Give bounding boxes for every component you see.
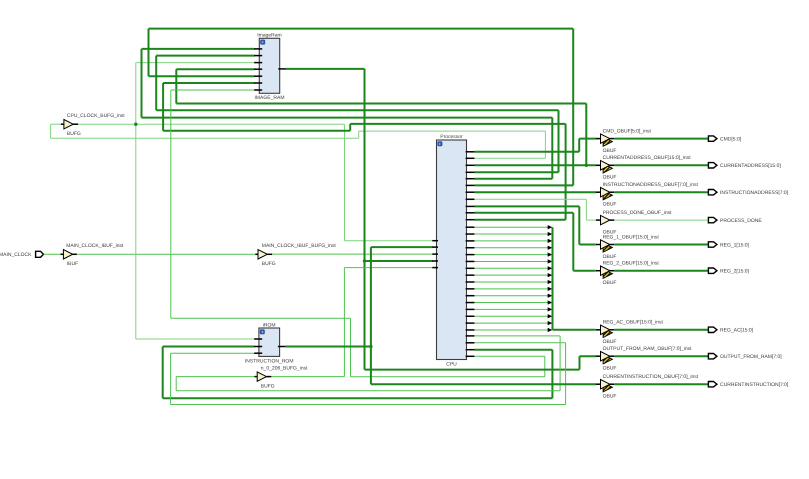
output port CMD[5:0] <box>708 136 717 141</box>
svg-text:PROCESS_DONE: PROCESS_DONE <box>720 218 762 224</box>
svg-text:REG_1[15:0]: REG_1[15:0] <box>720 242 750 248</box>
svg-text:MAIN_CLOCK: MAIN_CLOCK <box>0 252 32 258</box>
pins CPU outputs 1-31 <box>466 152 475 356</box>
buffer INSTRUCTIONADDRESS_OBUF[7:0]_inst (OBUF) <box>596 188 614 200</box>
buffer MAIN_CLOCK_IBUF_inst (IBUF) <box>61 250 77 259</box>
label MAIN_CLOCK_IBUF_inst <box>66 243 124 249</box>
label port CMD[5:0] <box>720 136 742 142</box>
wire net RAM mode: CPU pin31 y356.3 wrap to ImageRam pin7 <box>171 90 545 377</box>
pin ImageRam output <box>278 68 285 70</box>
svg-text:BUFG: BUFG <box>262 261 276 267</box>
pin iROM output <box>278 346 286 348</box>
svg-text:BUFG: BUFG <box>261 383 275 389</box>
label CPU instance <box>446 362 457 368</box>
wire net CPU_CLOCK from CPU pin2 wrap to CPU_CLOCK_BUFG input <box>51 124 546 158</box>
buffer OUTPUT_FROM_RAM_OBUF[7:0]_inst (OBUF) <box>596 352 614 364</box>
label Processor title <box>440 134 463 140</box>
buffer CURRENTADDRESS_OBUF[15:0]_inst (OBUF) <box>596 161 614 173</box>
label port CURRENTINSTRUCTION[7:0] <box>720 382 789 388</box>
wire net INSTRADDR wrap: CPU pin30 y349.7 down to iROM pin2 <box>163 347 553 399</box>
svg-text:OBUF: OBUF <box>603 202 617 208</box>
junction CPU_CLOCK at BUFG output branch <box>134 123 137 126</box>
svg-text:CPU: CPU <box>446 362 457 368</box>
label OBUF under REG_1_OBUF[15:0]_inst <box>603 254 617 260</box>
buffer REG_AC_OBUF[15:0]_inst (OBUF) <box>596 325 614 337</box>
wire net n_0_206 wrap: CPU pin28 y335.9 down to n_0_206_BUFG input <box>176 336 560 391</box>
label REG_2_OBUF[15:0]_inst <box>603 261 660 267</box>
label port CURRENTADDRESS[15:0] <box>720 163 781 169</box>
svg-text:OUTPUT_FROM_RAM_OBUF[7:0]_inst: OUTPUT_FROM_RAM_OBUF[7:0]_inst <box>603 346 693 352</box>
label CPU_CLOCK_BUFG_inst <box>67 113 125 119</box>
pins iROM inputs 1-3 <box>254 339 262 353</box>
svg-text:REG_2_OBUF[15:0]_inst: REG_2_OBUF[15:0]_inst <box>603 261 660 267</box>
svg-text:IBUF: IBUF <box>67 261 78 267</box>
pins CPU inputs A-E <box>432 241 438 268</box>
CPU block U_CPU (Processor) <box>437 140 467 360</box>
label BUFG cpu clock <box>67 131 81 137</box>
label port PROCESS_DONE <box>720 218 762 224</box>
label REG_1_OBUF[15:0]_inst <box>603 234 660 240</box>
output port INSTRUCTIONADDRESS[7:0] <box>708 190 717 195</box>
svg-text:PROCESS_DONE_OBUF_inst: PROCESS_DONE_OBUF_inst <box>603 210 673 216</box>
svg-text:OBUF: OBUF <box>603 148 617 154</box>
buffer REG_2_OBUF[15:0]_inst (OBUF) <box>596 266 614 278</box>
wire INSTRUCTIONADDRESS[7:0] OBUF output to port <box>614 191 708 193</box>
buffer CURRENTINSTRUCTION_OBUF[7:0]_inst (OBUF) <box>596 380 614 392</box>
pins ImageRam inputs 1-7 <box>254 49 262 90</box>
svg-text:REG_AC[15:0]: REG_AC[15:0] <box>720 328 754 334</box>
svg-text:OBUF: OBUF <box>603 394 617 400</box>
svg-text:CURRENTINSTRUCTION_OBUF[7:0]_i: CURRENTINSTRUCTION_OBUF[7:0]_inst <box>603 374 699 380</box>
svg-text:+: + <box>261 40 264 45</box>
wire MAIN_CLOCK_IBUF to BUFG <box>77 253 255 255</box>
label OUTPUT_FROM_RAM_OBUF[7:0]_inst <box>603 346 693 352</box>
label port INSTRUCTIONADDRESS[7:0] <box>720 190 789 196</box>
wire net RAM_OUT: ImageRam output to CPU pin D and OUTPUT_FROM_RAM OBUF <box>286 69 597 370</box>
wire net REG_2: CPU pin10 to OBUF <box>474 213 596 271</box>
wire MAIN_CLOCK_BUFG to CPU pin C <box>272 253 433 255</box>
buffer MAIN_CLOCK_IBUF_BUFG_inst (BUFG) <box>255 250 272 259</box>
wire net CURRENTINSTRUCTION: iROM output to CPU pin B and OBUF <box>285 247 596 384</box>
label OBUF under REG_2_OBUF[15:0]_inst <box>603 280 617 286</box>
output port PROCESS_DONE <box>708 217 717 222</box>
buffer CPU_CLOCK_BUFG_inst (BUFG) <box>61 120 78 129</box>
junction RAM_OUT at CPU pin D branch <box>363 259 366 262</box>
svg-text:INSTRUCTIONADDRESS[7:0]: INSTRUCTIONADDRESS[7:0] <box>720 190 789 196</box>
wire CURRENTINSTRUCTION[7:0] OBUF output to port <box>614 383 708 385</box>
svg-text:+: + <box>261 329 264 334</box>
wire REG_AC[15:0] OBUF output to port <box>614 329 708 331</box>
wire net PROCESS_DONE: CPU pin8 to OBUF <box>474 199 597 220</box>
svg-text:OBUF: OBUF <box>603 254 617 260</box>
label OBUF under REG_AC_OBUF[15:0]_inst <box>603 339 617 345</box>
buffer REG_1_OBUF[15:0]_inst (OBUF) <box>596 240 614 252</box>
RAM block U_IMAGE_RAM (ImageRam) <box>259 38 279 93</box>
svg-text:CMD[5:0]: CMD[5:0] <box>720 136 742 142</box>
label OBUF under CURRENTADDRESS_OBUF[15:0]_inst <box>603 175 617 181</box>
svg-text:+: + <box>439 141 442 146</box>
wire REG_2[15:0] OBUF output to port <box>614 270 708 272</box>
wire net REG_1: CPU pin9 to OBUF <box>474 206 596 244</box>
svg-text:MAIN_CLOCK_IBUF_BUFG_inst: MAIN_CLOCK_IBUF_BUFG_inst <box>262 243 337 249</box>
label port REG_2[15:0] <box>720 269 750 275</box>
output port CURRENTADDRESS[15:0] <box>708 163 717 168</box>
label CMD_OBUF[5:0]_inst <box>603 128 652 134</box>
output port CURRENTINSTRUCTION[7:0] <box>708 382 717 387</box>
label BUFG main clock <box>262 261 276 267</box>
wire net CPU_CLOCK_BUFG output to ImageRam clk, iROM clk, CPU pin A <box>78 63 433 339</box>
label n_0_206_BUFG_inst <box>261 366 308 372</box>
svg-text:n_0_206_BUFG_inst: n_0_206_BUFG_inst <box>261 366 308 372</box>
wire net RAM data: CPU pin6 y185.4 up x573.2 over top y28 to ImageRam pin5 <box>149 29 574 186</box>
wire net RAM addr-a: CPU pin5 y178.7 up x552.3 to ImageRam pin1 <box>142 49 553 179</box>
label REG_AC_OBUF[15:0]_inst <box>603 320 664 326</box>
svg-text:iROM: iROM <box>263 322 276 328</box>
label MAIN_CLOCK <box>0 252 32 258</box>
label INSTRUCTIONADDRESS_OBUF[7:0]_inst <box>603 182 699 188</box>
svg-text:Processor: Processor <box>440 134 463 140</box>
wire CURRENTADDRESS[15:0] OBUF output to port <box>614 164 708 166</box>
buffer CMD_OBUF[5:0]_inst (OBUF) <box>596 134 614 146</box>
label MAIN_CLOCK_IBUF_BUFG_inst <box>262 243 337 249</box>
output port REG_AC[15:0] <box>708 327 717 332</box>
wire net INSTRUCTIONADDRESS: CPU pin7 to OBUF <box>474 191 596 193</box>
wire net CURRENTADDRESS branch to ImageRam pin4 <box>176 69 586 165</box>
label OBUF under INSTRUCTIONADDRESS_OBUF[7:0]_inst <box>603 202 617 208</box>
wire OUTPUT_FROM_RAM[7:0] OBUF output to port <box>614 355 708 357</box>
label OBUF under CMD_OBUF[5:0]_inst <box>603 148 617 154</box>
label OBUF under PROCESS_DONE_OBUF_inst <box>603 229 617 235</box>
svg-text:CURRENTADDRESS_OBUF[15:0]_inst: CURRENTADDRESS_OBUF[15:0]_inst <box>603 155 692 161</box>
wire net CMD: CPU pin1 to CMD OBUF <box>474 139 596 152</box>
buffer n_0_206_BUFG_inst (BUFG) <box>254 372 271 381</box>
svg-text:REG_1_OBUF[15:0]_inst: REG_1_OBUF[15:0]_inst <box>603 234 660 240</box>
junction CURRENTINSTRUCTION at iROM output <box>369 345 372 348</box>
svg-text:OUTPUT_FROM_RAM[7:0]: OUTPUT_FROM_RAM[7:0] <box>720 354 782 360</box>
label INSTRUCTION_ROM instance <box>245 359 294 365</box>
wire REG_1[15:0] OBUF output to port <box>614 244 708 246</box>
label IMAGE_RAM instance <box>254 95 284 101</box>
label OBUF under OUTPUT_FROM_RAM_OBUF[7:0]_inst <box>603 366 617 372</box>
label CURRENTADDRESS_OBUF[15:0]_inst <box>603 155 692 161</box>
input port MAIN_CLOCK <box>36 251 44 257</box>
svg-text:ImageRam: ImageRam <box>257 33 281 39</box>
svg-text:BUFG: BUFG <box>67 131 81 137</box>
label PROCESS_DONE_OBUF_inst <box>603 210 673 216</box>
wire MAIN_CLOCK port to IBUF <box>44 253 64 255</box>
svg-text:REG_AC_OBUF[15:0]_inst: REG_AC_OBUF[15:0]_inst <box>603 320 664 326</box>
svg-text:OBUF: OBUF <box>603 366 617 372</box>
wire PROCESS_DONE OBUF output to port <box>614 219 708 221</box>
buffer PROCESS_DONE_OBUF_inst (OBUF) <box>596 215 614 224</box>
wire net ROM enable wrap: CPU pin29 y342.8 down to iROM pin3 <box>171 343 566 405</box>
svg-text:IMAGE_RAM: IMAGE_RAM <box>254 95 284 101</box>
label iROM title <box>263 322 276 328</box>
wire net CURRENTADDRESS: CPU pin3 to OBUF <box>474 164 596 166</box>
svg-text:CURRENTADDRESS[15:0]: CURRENTADDRESS[15:0] <box>720 163 781 169</box>
svg-text:INSTRUCTION_ROM: INSTRUCTION_ROM <box>245 359 294 365</box>
svg-text:INSTRUCTIONADDRESS_OBUF[7:0]_i: INSTRUCTIONADDRESS_OBUF[7:0]_inst <box>603 182 699 188</box>
svg-text:OBUF: OBUF <box>603 175 617 181</box>
label port REG_1[15:0] <box>720 242 750 248</box>
svg-text:OBUF: OBUF <box>603 339 617 345</box>
label CURRENTINSTRUCTION_OBUF[7:0]_inst <box>603 374 699 380</box>
wire net RAM addr-b: CPU pin4 y172.3 up x558.5 to ImageRam pin2 <box>156 56 558 173</box>
svg-text:REG_2[15:0]: REG_2[15:0] <box>720 269 750 275</box>
svg-text:CPU_CLOCK_BUFG_inst: CPU_CLOCK_BUFG_inst <box>67 113 125 119</box>
wire net RAM we: CPU pin11 y219.7 up x565.6 jog to ImageRam pin6 <box>163 83 565 220</box>
svg-text:CURRENTINSTRUCTION[7:0]: CURRENTINSTRUCTION[7:0] <box>720 382 789 388</box>
wire net REG_AC bit taps with arrowheads into bus <box>474 225 552 332</box>
wire net REG_AC bus vertical and to OBUF <box>553 227 596 330</box>
wire CMD[5:0] OBUF output to port <box>614 138 708 140</box>
label ImageRam title <box>257 33 281 39</box>
label port REG_AC[15:0] <box>720 328 754 334</box>
junction CURRENTADDRESS at OBUF wire <box>585 164 588 167</box>
output port REG_2[15:0] <box>708 268 717 273</box>
wire net n_0_206_BUFG output to CPU pin E <box>271 268 433 377</box>
ROM block U_INSTRUCTION_ROM (iROM) <box>259 328 280 356</box>
svg-text:OBUF: OBUF <box>603 280 617 286</box>
svg-text:CMD_OBUF[5:0]_inst: CMD_OBUF[5:0]_inst <box>603 128 652 134</box>
output port REG_1[15:0] <box>708 242 717 247</box>
svg-text:MAIN_CLOCK_IBUF_inst: MAIN_CLOCK_IBUF_inst <box>66 243 124 249</box>
label port OUTPUT_FROM_RAM[7:0] <box>720 354 782 360</box>
label IBUF <box>67 261 78 267</box>
output port OUTPUT_FROM_RAM[7:0] <box>708 354 717 359</box>
label BUFG n_0_206 <box>261 383 275 389</box>
label OBUF under CURRENTINSTRUCTION_OBUF[7:0]_inst <box>603 394 617 400</box>
